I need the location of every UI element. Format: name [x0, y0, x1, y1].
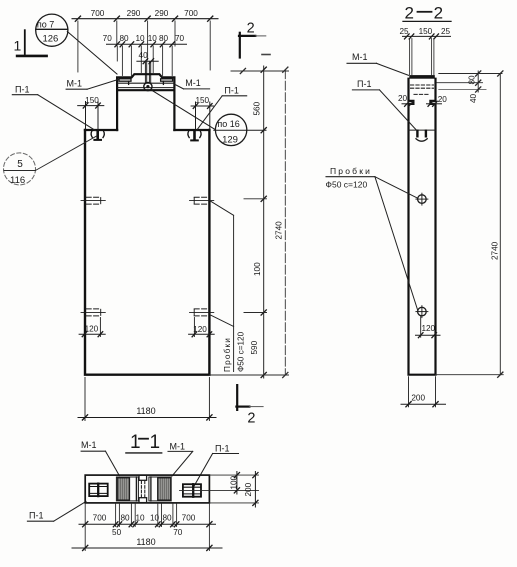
- top dims 25/150/25: [399, 27, 450, 36]
- svg-text:П-1: П-1: [15, 85, 29, 95]
- svg-text:126: 126: [42, 34, 58, 45]
- center connector tabs and dashed rods: [139, 475, 147, 502]
- extension lines down to plate: [410, 39, 434, 75]
- svg-text:120: 120: [85, 325, 99, 334]
- top dim labels: [91, 9, 199, 18]
- svg-text:290: 290: [127, 9, 141, 18]
- svg-text:10: 10: [135, 34, 145, 43]
- svg-text:Ф50 с=120: Ф50 с=120: [326, 180, 368, 190]
- svg-text:5: 5: [17, 159, 23, 170]
- svg-text:П-1: П-1: [224, 86, 238, 96]
- svg-text:2: 2: [247, 21, 255, 37]
- svg-text:200: 200: [244, 482, 253, 496]
- title 2-2: [405, 3, 444, 22]
- svg-text:М-1: М-1: [170, 442, 186, 452]
- leaders to plugs: [375, 177, 418, 311]
- shoulders: [85, 129, 117, 131]
- svg-text:40: 40: [469, 93, 478, 103]
- svg-text:Пробки: Пробки: [223, 337, 232, 372]
- svg-text:80: 80: [162, 514, 172, 523]
- svg-text:700: 700: [182, 514, 196, 523]
- right side small dims 80/40: [437, 71, 502, 92]
- svg-text:М-1: М-1: [67, 79, 83, 89]
- lifting anchor circle: [144, 83, 152, 91]
- section mark 2 (bottom right): [236, 385, 263, 410]
- main body outline: [85, 130, 209, 375]
- svg-text:2: 2: [247, 411, 255, 427]
- svg-text:40: 40: [139, 51, 149, 60]
- svg-text:100: 100: [253, 262, 262, 276]
- embedded plate M-1 (black bar): [409, 75, 435, 79]
- right outer vertical dimension 2740: [283, 67, 288, 378]
- svg-text:1180: 1180: [136, 537, 155, 547]
- 20 dim left: [402, 101, 414, 106]
- horizontal extension lines right side: [209, 68, 288, 375]
- svg-text:80: 80: [119, 34, 129, 43]
- column profile: [409, 79, 436, 375]
- svg-text:150: 150: [85, 96, 99, 105]
- 200 dim bottom: [401, 377, 446, 407]
- svg-text:50: 50: [112, 528, 122, 537]
- svg-text:150: 150: [195, 96, 209, 105]
- svg-text:1: 1: [14, 38, 22, 54]
- svg-text:120: 120: [421, 324, 435, 333]
- svg-text:20: 20: [398, 94, 408, 103]
- plug lower-right (dashed): [190, 309, 214, 316]
- section mark 2 (top right): [239, 33, 270, 58]
- 150 dimension left: [78, 102, 104, 130]
- bottom dim row 700/80/10/10/80/700: [79, 522, 216, 527]
- axis line through right plate: [180, 489, 259, 491]
- plug upper-left (dashed): [81, 197, 105, 204]
- second row labels: [103, 34, 185, 43]
- svg-text:120: 120: [193, 325, 207, 334]
- svg-text:2740: 2740: [491, 241, 500, 260]
- top dimension line 700/290/290/700: [72, 16, 218, 21]
- svg-text:700: 700: [91, 9, 105, 18]
- dashed joint lines in head: [411, 85, 434, 94]
- balloon 5/116 (faint): [4, 136, 97, 185]
- svg-text:Пробки: Пробки: [330, 166, 372, 176]
- label P-1 left: [12, 95, 95, 131]
- svg-text:П-1: П-1: [357, 79, 371, 89]
- extension stubs below row2: [117, 46, 172, 76]
- balloon po7/126: [36, 14, 117, 74]
- label M-1 left: [81, 451, 119, 475]
- svg-text:70: 70: [173, 528, 183, 537]
- label M-1 right: [168, 451, 193, 476]
- svg-text:1: 1: [150, 432, 161, 453]
- plug circle upper: [416, 193, 428, 205]
- 120 dim at lower plug: [416, 317, 441, 338]
- bottom dim 1180: [72, 545, 222, 550]
- 120 dimension lower-right: [189, 318, 215, 337]
- svg-text:М-1: М-1: [185, 78, 201, 88]
- svg-text:по 16: по 16: [217, 119, 239, 129]
- embedded plate M-1 left: [119, 79, 131, 85]
- svg-text:2: 2: [434, 3, 443, 22]
- leader to plugs (probki): [210, 201, 234, 372]
- svg-text:20: 20: [438, 95, 448, 104]
- svg-text:290: 290: [155, 9, 169, 18]
- M-1 channel left (hatched): [116, 477, 138, 501]
- anchor rod lines: [145, 62, 150, 83]
- extension lines from top dim: [78, 21, 210, 72]
- right inner vertical dimension 560/100/590: [261, 66, 266, 378]
- balloon po16/129: [151, 90, 267, 146]
- svg-text:80: 80: [120, 514, 130, 523]
- bottom extension lines: [85, 504, 209, 551]
- title 1-1: [130, 432, 160, 453]
- svg-text:10: 10: [150, 514, 160, 523]
- svg-text:80: 80: [159, 34, 169, 43]
- plug lower-left (dashed): [81, 309, 105, 316]
- svg-text:М-1: М-1: [352, 52, 368, 62]
- svg-text:2: 2: [405, 3, 414, 22]
- 120 dimension lower-left: [79, 318, 105, 337]
- top block inner lines: [117, 82, 174, 84]
- svg-text:1180: 1180: [136, 406, 155, 416]
- svg-text:П-1: П-1: [215, 443, 229, 453]
- label P-1 bottom left: [27, 502, 86, 522]
- bottom dimension 1180: [78, 378, 216, 421]
- 40 dimension: [137, 59, 158, 64]
- plug upper-right (dashed): [190, 197, 214, 204]
- svg-text:1: 1: [130, 432, 141, 453]
- plan outline: [85, 475, 209, 503]
- svg-text:2740: 2740: [275, 221, 284, 240]
- svg-text:560: 560: [253, 101, 262, 115]
- plate P-1 right: [183, 484, 201, 497]
- svg-text:129: 129: [222, 134, 238, 145]
- plug circle lower: [416, 306, 428, 318]
- second dimension row 70/80/10/10/80/70: [107, 42, 187, 47]
- svg-text:100: 100: [230, 475, 239, 489]
- section mark 1 (top left): [17, 30, 46, 56]
- embedded plate M-1 right: [161, 79, 173, 85]
- svg-text:10: 10: [135, 514, 145, 523]
- svg-text:116: 116: [10, 175, 25, 186]
- svg-text:25: 25: [441, 27, 451, 36]
- 150 dimension right: [191, 102, 213, 129]
- svg-text:590: 590: [250, 340, 259, 354]
- right dims 100 / 200: [209, 475, 258, 503]
- shoulder anchor left: [91, 131, 104, 140]
- top block outline: [117, 74, 174, 130]
- svg-text:П-1: П-1: [29, 511, 43, 521]
- svg-text:10: 10: [148, 34, 158, 43]
- 20 dim right: [427, 101, 442, 106]
- svg-text:Ф50 с=120: Ф50 с=120: [236, 331, 245, 372]
- svg-text:70: 70: [103, 34, 113, 43]
- label P-1 right: [194, 454, 239, 487]
- svg-text:700: 700: [184, 9, 198, 18]
- shoulder anchor right: [188, 131, 201, 141]
- svg-text:по 7: по 7: [37, 19, 54, 29]
- svg-text:200: 200: [411, 394, 425, 403]
- svg-text:70: 70: [175, 34, 185, 43]
- P-1 groove mark: [409, 129, 436, 131]
- svg-text:700: 700: [93, 514, 107, 523]
- svg-text:М-1: М-1: [81, 440, 97, 450]
- label M-1 right: [175, 85, 209, 89]
- svg-text:80: 80: [468, 75, 477, 85]
- 2740 dim right: [436, 71, 504, 377]
- label P-1 right: [197, 96, 247, 131]
- svg-text:150: 150: [419, 27, 433, 36]
- label M-1: [347, 63, 409, 75]
- label P-1: [352, 90, 416, 130]
- M-1 channel right (hatched): [149, 477, 171, 501]
- label M-1 left: [66, 80, 118, 90]
- plate P-1 left: [89, 484, 108, 497]
